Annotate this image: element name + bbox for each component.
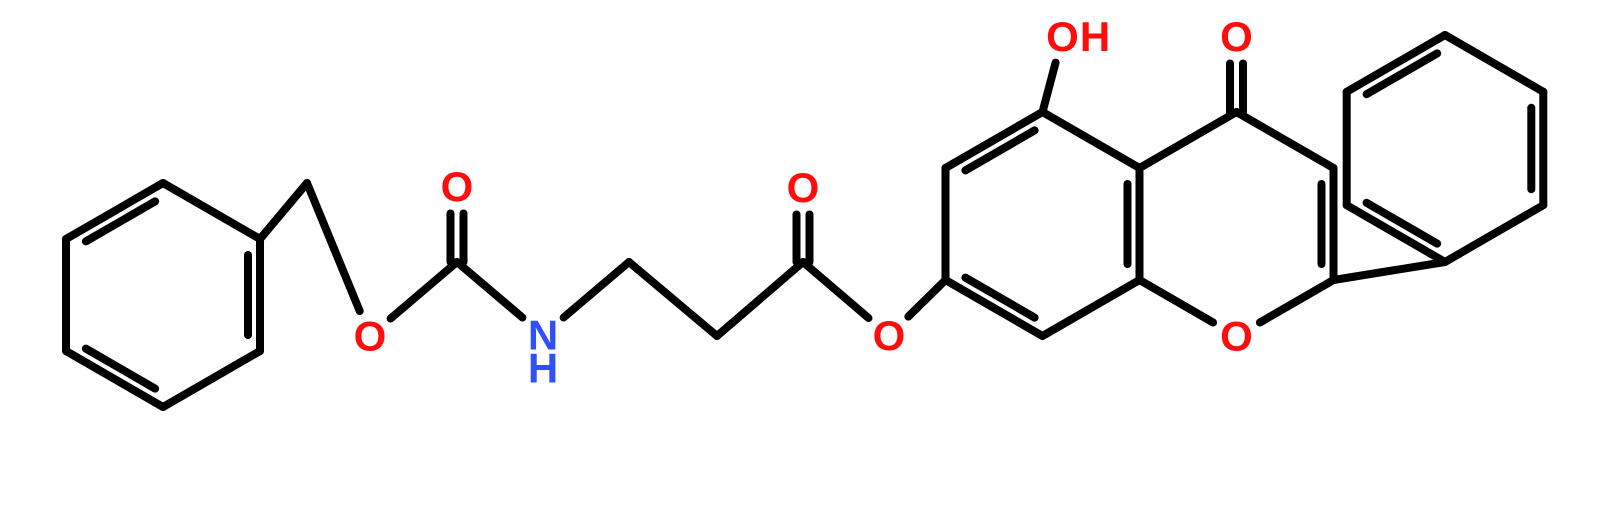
- svg-text:H: H: [1080, 13, 1110, 60]
- svg-text:H: H: [528, 345, 558, 392]
- svg-text:O: O: [1046, 13, 1079, 60]
- svg-text:O: O: [787, 164, 820, 211]
- svg-text:O: O: [441, 163, 474, 210]
- svg-text:O: O: [354, 313, 387, 360]
- svg-text:O: O: [873, 312, 906, 359]
- svg-text:O: O: [1220, 13, 1253, 60]
- svg-text:O: O: [1220, 313, 1253, 360]
